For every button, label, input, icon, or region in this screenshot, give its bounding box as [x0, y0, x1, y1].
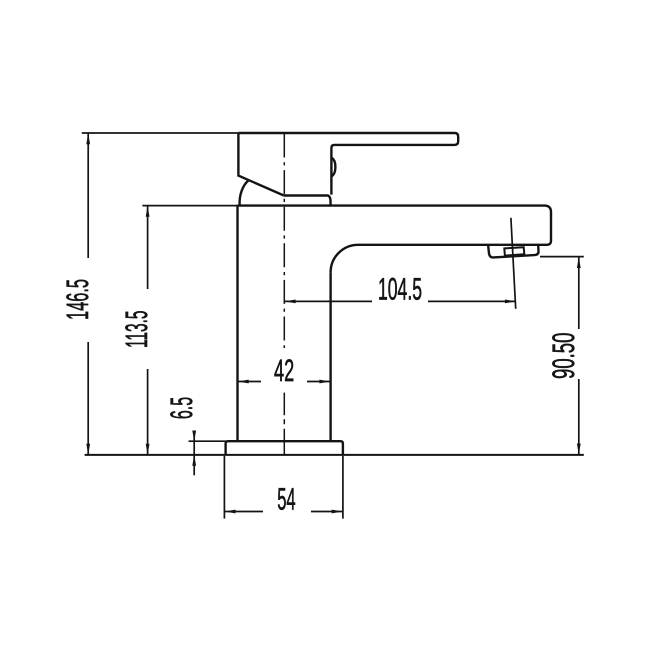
arrow 90.50 top — [577, 257, 581, 268]
body top and spout right edge — [238, 206, 552, 245]
arrow 146.5 bottom — [86, 444, 90, 455]
top extension line for 146.5 — [82, 132, 239, 134]
extension line for 6.5 — [189, 440, 227, 442]
arrow 42 right — [319, 380, 330, 384]
svg-text:6.5: 6.5 — [164, 397, 199, 419]
centerline — [283, 134, 285, 456]
arrow 54 right — [332, 510, 343, 514]
base plate — [226, 441, 343, 454]
aerator inner ring — [504, 247, 524, 255]
spout bottom and underside curve — [331, 245, 547, 273]
extension line for 113.5 / body top — [142, 205, 237, 207]
dimension line 54 — [224, 511, 343, 513]
faucet outline — [226, 133, 551, 455]
dimension line 113.5 — [147, 206, 149, 454]
arrow 113.5 bottom — [146, 444, 150, 455]
aerator housing — [488, 245, 538, 258]
arrowheads — [86, 133, 580, 513]
dimension line 146.5 — [87, 134, 89, 455]
svg-text:90.50: 90.50 — [546, 333, 581, 379]
svg-text:104.5: 104.5 — [378, 271, 422, 306]
body right edge — [329, 272, 331, 441]
handle lever — [238, 133, 458, 195]
dimension line 42 — [238, 381, 331, 383]
svg-text:146.5: 146.5 — [60, 279, 95, 320]
dimension line 104.5 — [285, 300, 517, 302]
arrow 6.5 up — [192, 455, 196, 466]
dimension and extension lines — [82, 133, 584, 519]
cap left edge and diagonal seam — [238, 133, 283, 196]
arrow 104.5 right — [505, 300, 516, 304]
arrow 104.5 left — [285, 300, 296, 304]
arrow 42 left — [238, 380, 249, 384]
arrow 146.5 top — [86, 133, 90, 144]
extension line for 90.50 — [540, 256, 584, 258]
dimension line 90.50 — [578, 257, 580, 454]
body left edge — [236, 206, 238, 442]
dimension line 6.5 — [193, 432, 195, 476]
baseline — [85, 454, 584, 456]
dimension labels — [60, 271, 581, 516]
svg-text:54: 54 — [277, 482, 295, 517]
svg-text:113.5: 113.5 — [119, 311, 154, 349]
arrow 6.5 down — [192, 431, 196, 442]
arrow 113.5 top — [146, 206, 150, 217]
arrow 90.50 bottom — [577, 444, 581, 455]
extension lines for 54 — [224, 456, 343, 519]
arrow 54 left — [225, 510, 236, 514]
handle bump — [331, 158, 335, 177]
neck fillet arc — [240, 180, 249, 205]
slanted extension line for 104.5 — [511, 218, 516, 309]
svg-text:42: 42 — [274, 353, 294, 388]
ledge under handle — [284, 196, 331, 206]
